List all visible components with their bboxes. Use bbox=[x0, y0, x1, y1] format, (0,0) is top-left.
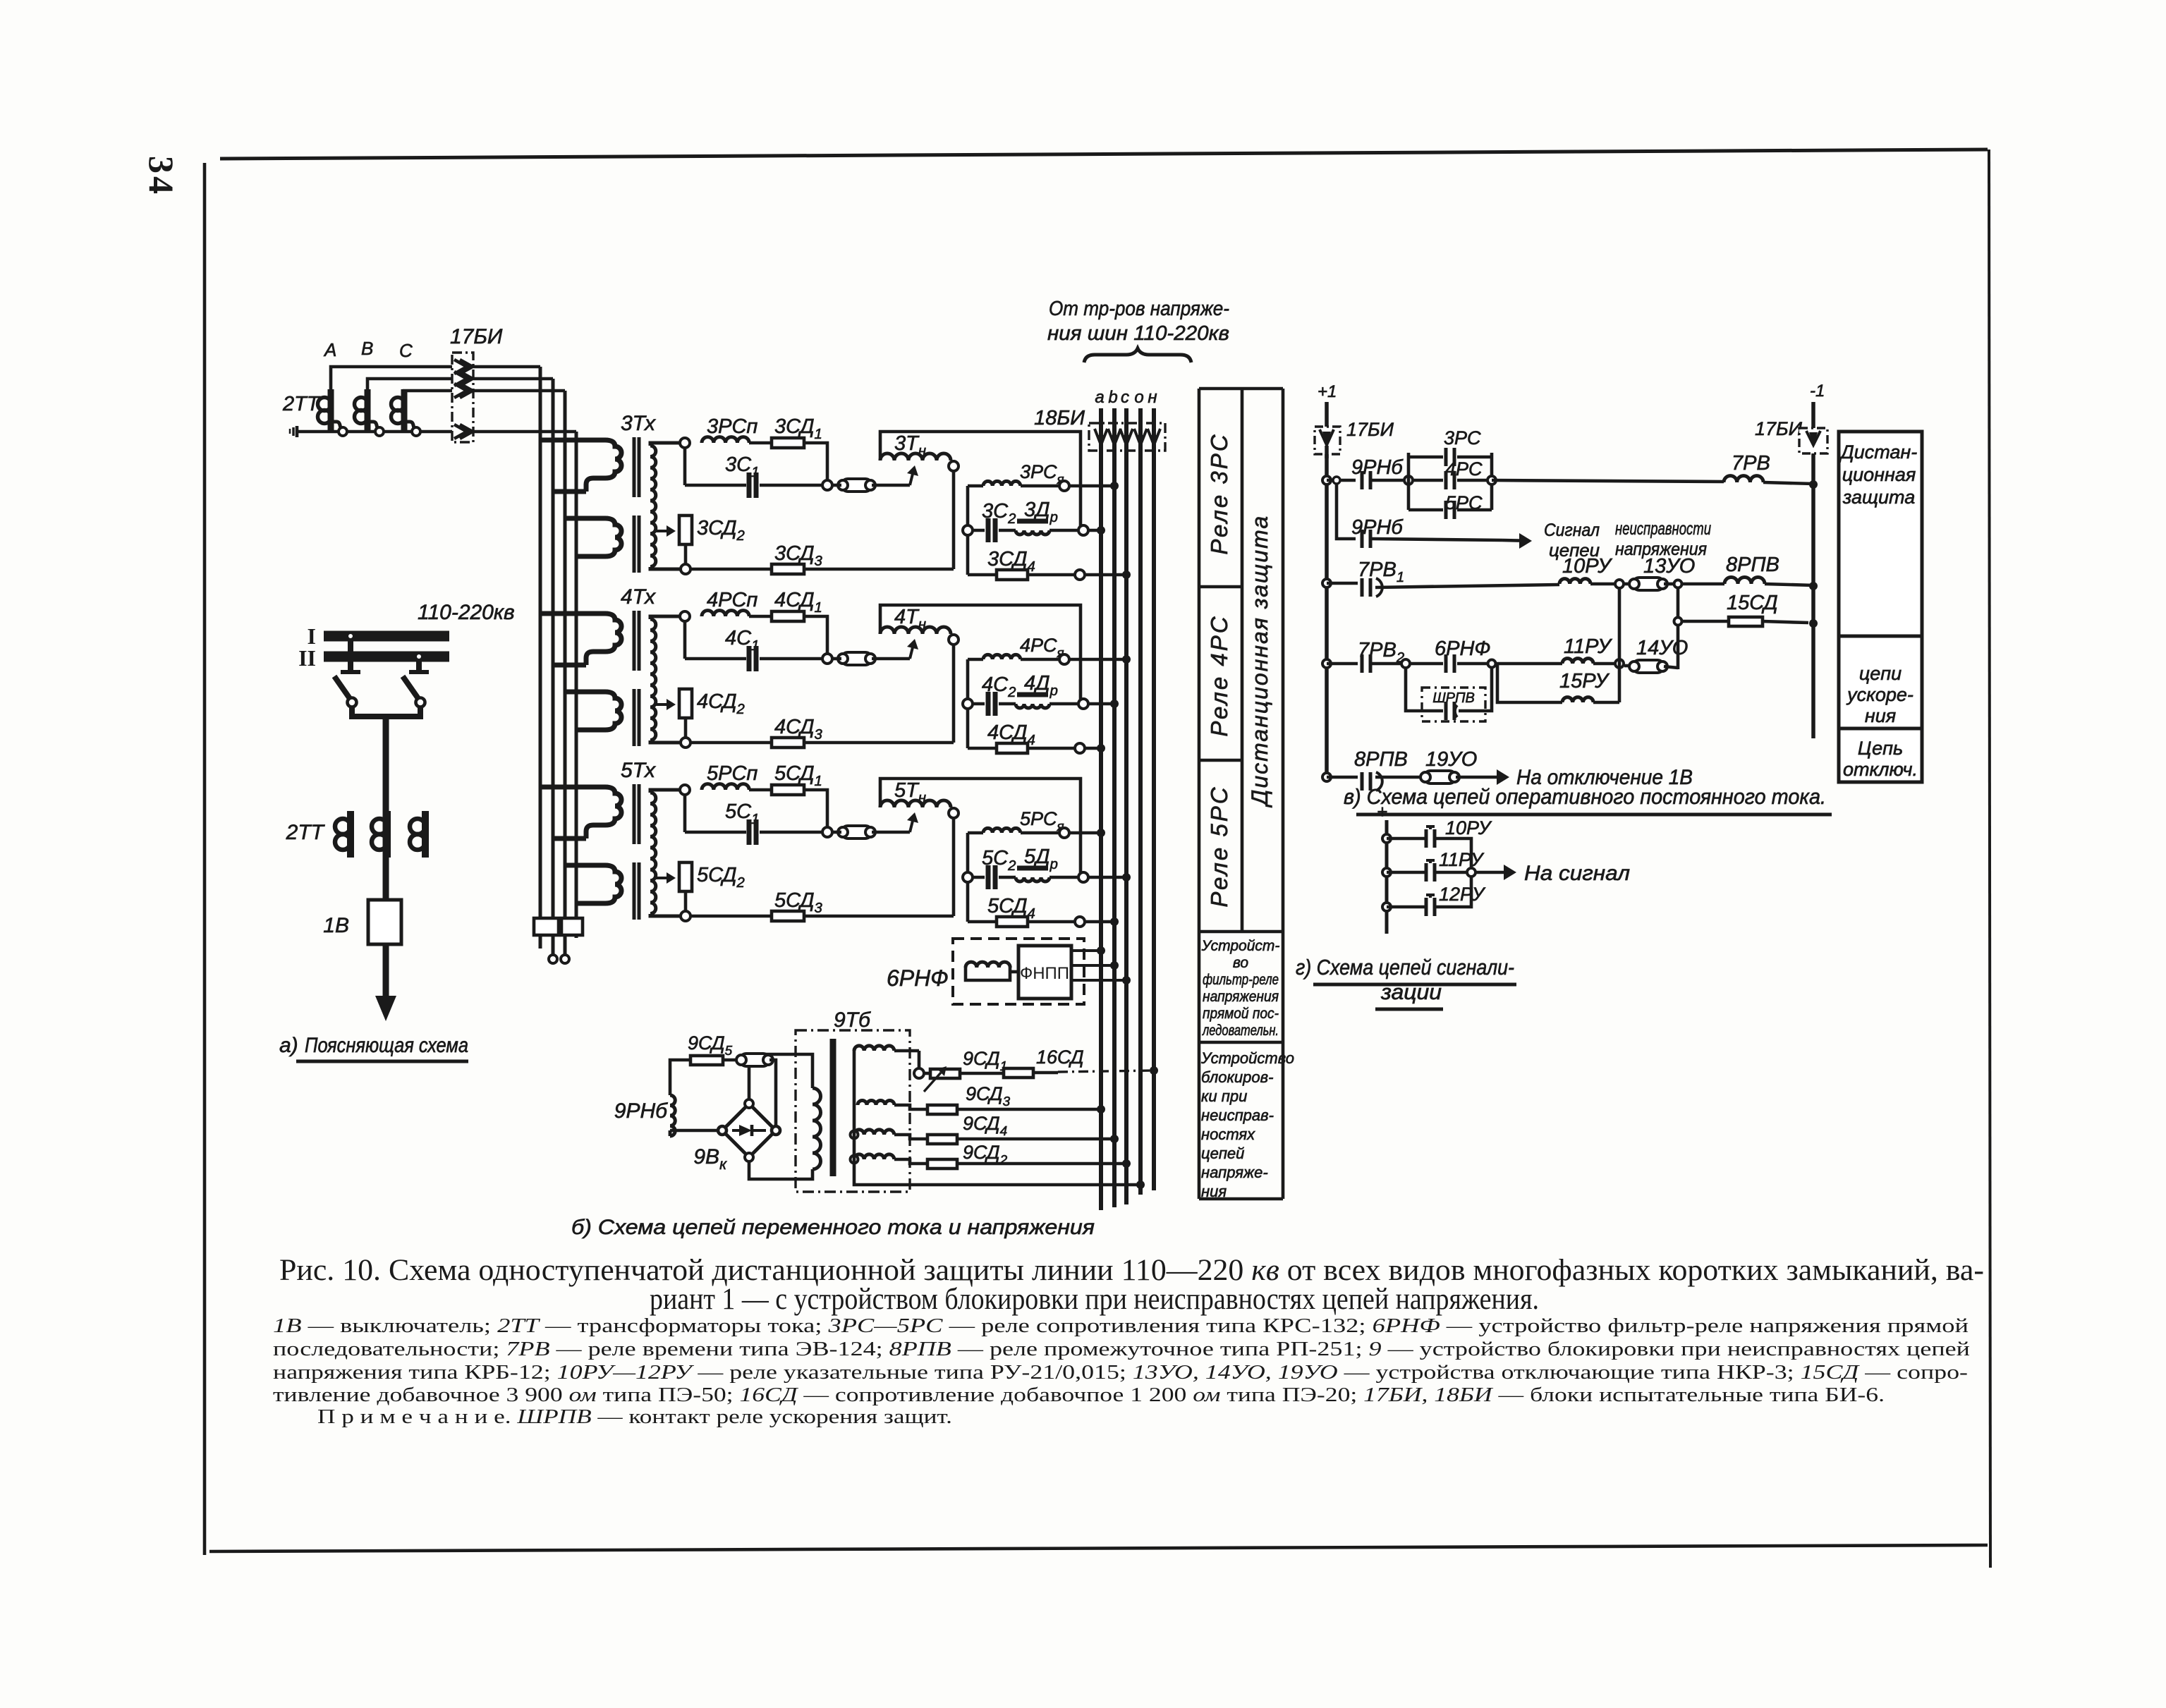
svg-text:С: С bbox=[399, 340, 413, 361]
dc positive vertical bbox=[1325, 402, 1329, 777]
9Тб core bbox=[830, 1039, 836, 1176]
svg-text:На сигнал: На сигнал bbox=[1524, 862, 1630, 885]
svg-text:4Тх: 4Тх bbox=[621, 585, 656, 609]
row 9РНб to RS contacts bbox=[1322, 476, 1331, 484]
svg-text:8РПВ: 8РПВ bbox=[1726, 554, 1779, 576]
svg-text:фильтр-реле: фильтр-реле bbox=[1203, 972, 1279, 988]
svg-text:16СД: 16СД bbox=[1036, 1047, 1084, 1068]
svg-text:н: н bbox=[1148, 388, 1157, 407]
wire disconnectors to feeder bbox=[347, 633, 354, 640]
wire 5 resonant block left side bbox=[966, 833, 970, 922]
svg-text:5РС: 5РС bbox=[1445, 492, 1483, 513]
svg-text:13УО: 13УО bbox=[1643, 555, 1695, 578]
svg-text:От тр-ров напряже-: От тр-ров напряже- bbox=[1049, 298, 1229, 320]
svg-text:напряжения типа КРБ-12; 10Р: напряжения типа КРБ-12; 10РУ—12РУ — реле… bbox=[273, 1361, 1968, 1384]
disconnector from bus I bbox=[348, 641, 353, 672]
svg-text:ностях: ностях bbox=[1201, 1126, 1255, 1143]
frame right rule bbox=[1989, 150, 1990, 1568]
tap arrow to resistor 3СД2 bbox=[655, 530, 667, 532]
voltage bus b bbox=[1112, 408, 1117, 1207]
wire bundle phase B vertical bbox=[552, 379, 555, 948]
wire bundle common vertical bbox=[575, 432, 578, 938]
svg-text:цепи: цепи bbox=[1859, 663, 1902, 684]
svg-text:18БИ: 18БИ bbox=[1034, 407, 1085, 429]
dc negative vertical bbox=[1811, 402, 1815, 738]
svg-text:Сигнал: Сигнал bbox=[1544, 520, 1600, 540]
svg-text:Поясняющая схема: Поясняющая схема bbox=[305, 1034, 468, 1057]
current transformer 2TT phase A bbox=[328, 389, 334, 430]
svg-text:3Тх: 3Тх bbox=[621, 412, 656, 435]
9Тб secondary winding bbox=[813, 1088, 821, 1169]
wire phase C bbox=[404, 391, 452, 392]
svg-text:в) Схема цепей оперативного: в) Схема цепей оперативного постоянного … bbox=[1344, 784, 1826, 809]
svg-text:ки при: ки при bbox=[1201, 1087, 1247, 1105]
svg-text:5РСп: 5РСп bbox=[707, 762, 758, 785]
svg-text:2ТТ: 2ТТ bbox=[286, 821, 326, 844]
wire 4 bottom row with СД3 bbox=[681, 738, 690, 748]
svg-text:17БИ: 17БИ bbox=[1755, 418, 1803, 439]
svg-text:ния шин 110-220кв: ния шин 110-220кв bbox=[1047, 322, 1229, 345]
6РНФ winding bbox=[966, 962, 1010, 968]
svg-text:9РНб: 9РНб bbox=[1351, 516, 1404, 539]
svg-text:неисправ-: неисправ- bbox=[1201, 1106, 1274, 1124]
wire phase A bbox=[331, 367, 452, 392]
svg-text:6РНФ: 6РНФ bbox=[1435, 638, 1490, 660]
svg-text:П р и м е ч а н и е. ШРПВ — к: П р и м е ч а н и е. ШРПВ — контакт реле… bbox=[317, 1405, 952, 1428]
svg-text:12РУ: 12РУ bbox=[1439, 884, 1486, 905]
svg-text:17БИ: 17БИ bbox=[450, 325, 503, 348]
svg-text:Рис. 10. Схема одноступенчатой: Рис. 10. Схема одноступенчатой дистанцио… bbox=[279, 1254, 1984, 1287]
disconnector from bus II bbox=[416, 661, 422, 672]
svg-text:a: a bbox=[1095, 388, 1104, 407]
contacts 3РС 4РС 5РС parallel bbox=[1404, 476, 1413, 484]
svg-text:c: c bbox=[1121, 388, 1129, 407]
svg-text:10РУ: 10РУ bbox=[1445, 817, 1492, 838]
svg-text:Цепь: Цепь bbox=[1858, 738, 1903, 759]
svg-text:В: В bbox=[361, 338, 373, 359]
wire 13УО junction down bbox=[1677, 587, 1680, 669]
svg-text:Дистан-: Дистан- bbox=[1839, 441, 1918, 463]
svg-text:4РС: 4РС bbox=[1445, 458, 1483, 480]
svg-text:-1: -1 bbox=[1810, 382, 1825, 401]
wire 4 c1 row to transformer Тн tap bbox=[841, 652, 872, 665]
svg-text:6РНФ: 6РНФ bbox=[887, 965, 949, 991]
block ФНПП bbox=[1018, 946, 1071, 999]
svg-text:19УО: 19УО bbox=[1425, 748, 1477, 771]
wire 4 resonant block left side bbox=[966, 659, 970, 748]
svg-text:во: во bbox=[1233, 955, 1249, 971]
signal bus vertical bbox=[1385, 820, 1389, 934]
svg-text:ФНПП: ФНПП bbox=[1020, 964, 1069, 983]
svg-text:11РУ: 11РУ bbox=[1564, 635, 1612, 658]
wire 3 resonant block left side bbox=[966, 486, 970, 575]
bundle bottom terminals bbox=[534, 918, 559, 935]
svg-text:b: b bbox=[1108, 388, 1117, 407]
svg-text:+1: +1 bbox=[1318, 382, 1337, 401]
svg-text:Устройство: Устройство bbox=[1200, 1049, 1294, 1067]
svg-text:А: А bbox=[323, 339, 336, 360]
wire 9 winding rows bbox=[894, 1049, 919, 1053]
wire ground row bbox=[311, 430, 452, 434]
svg-text:14УО: 14УО bbox=[1636, 637, 1688, 659]
svg-text:10РУ: 10РУ bbox=[1562, 555, 1612, 578]
wire 3 c1 row to transformer Тн tap bbox=[841, 479, 872, 492]
frame top rule bbox=[220, 150, 1988, 159]
svg-text:зации: зации bbox=[1380, 980, 1442, 1004]
relay table column lines bbox=[1198, 389, 1201, 1199]
svg-text:б) Схема цепей переменного: б) Схема цепей переменного тока и напряж… bbox=[571, 1216, 1095, 1239]
bus I bbox=[324, 631, 449, 642]
svg-text:17БИ: 17БИ bbox=[1346, 419, 1394, 440]
svg-text:4РСп: 4РСп bbox=[707, 589, 758, 611]
svg-text:11РУ: 11РУ bbox=[1439, 849, 1485, 870]
feeder arrow to line bbox=[383, 944, 389, 996]
svg-text:9РНб: 9РНб bbox=[614, 1099, 668, 1123]
contact ШРПВ dashed box bbox=[1422, 688, 1485, 721]
svg-text:7РВ: 7РВ bbox=[1732, 452, 1770, 475]
voltage bus o bbox=[1138, 408, 1143, 1195]
svg-text:прямой пос-: прямой пос- bbox=[1203, 1006, 1279, 1022]
feeder wire down bbox=[383, 716, 389, 900]
wire bundle phase C vertical bbox=[564, 391, 567, 948]
svg-text:15СД: 15СД bbox=[1727, 592, 1778, 614]
svg-text:8РПВ: 8РПВ bbox=[1354, 748, 1408, 771]
svg-text:Реле 4РС: Реле 4РС bbox=[1206, 614, 1232, 736]
wire 5 c1 row to transformer Тн tap bbox=[841, 826, 872, 838]
row 8РПВ bottom bbox=[1322, 773, 1331, 781]
svg-text:1В — выключатель; 2ТТ — транс: 1В — выключатель; 2ТТ — трансформаторы т… bbox=[273, 1314, 1969, 1337]
svg-text:3РС: 3РС bbox=[1444, 427, 1481, 449]
branch 9РНб signal bbox=[1333, 477, 1340, 484]
svg-text:а): а) bbox=[279, 1034, 298, 1057]
svg-text:блокиров-: блокиров- bbox=[1201, 1068, 1273, 1086]
svg-text:неисправности: неисправности bbox=[1615, 519, 1711, 539]
bridge corner nodes bbox=[718, 1126, 726, 1135]
svg-text:II: II bbox=[298, 645, 316, 671]
svg-text:Устройст-: Устройст- bbox=[1201, 938, 1280, 954]
svg-text:ускоре-: ускоре- bbox=[1846, 684, 1913, 705]
row 7РВ2 bbox=[1322, 659, 1331, 668]
voltage bus c bbox=[1124, 408, 1128, 1204]
current transformer 2TT phase C bbox=[401, 389, 408, 430]
voltage bus a bbox=[1099, 408, 1103, 1210]
svg-text:15РУ: 15РУ bbox=[1559, 670, 1610, 693]
wire 10РУ junction down to 15РУ bbox=[1618, 588, 1622, 702]
svg-text:цепей: цепей bbox=[1201, 1145, 1244, 1162]
svg-text:Дистанционная защита: Дистанционная защита bbox=[1247, 515, 1272, 807]
frame left rule bbox=[203, 163, 207, 1555]
svg-text:отключ.: отключ. bbox=[1843, 759, 1918, 780]
svg-text:риант 1 — с устройством блокир: риант 1 — с устройством блокировки при н… bbox=[650, 1283, 1539, 1316]
svg-text:9Тб: 9Тб bbox=[834, 1008, 871, 1032]
svg-text:Реле 5РС: Реле 5РС bbox=[1206, 785, 1232, 907]
wire bundle phase A vertical bbox=[539, 367, 542, 948]
svg-text:2ТТ: 2ТТ bbox=[282, 393, 321, 415]
wire 5 secondary top node bbox=[680, 785, 690, 795]
svg-text:3РСп: 3РСп bbox=[707, 415, 758, 438]
svg-text:ледовательн.: ледовательн. bbox=[1202, 1023, 1279, 1039]
svg-text:o: o bbox=[1134, 388, 1143, 407]
svg-text:ния: ния bbox=[1865, 705, 1896, 726]
svg-text:1В: 1В bbox=[323, 914, 349, 937]
box Дистанционная защита bbox=[1839, 432, 1922, 782]
wire 3 secondary top node bbox=[680, 438, 690, 448]
frame bottom rule bbox=[209, 1545, 1988, 1551]
svg-text:ционная: ционная bbox=[1842, 464, 1916, 485]
9Тб primary windings bbox=[854, 1046, 894, 1051]
svg-text:тивление добавочное 3 900 ом: тивление добавочное 3 900 ом типа ПЭ-50;… bbox=[273, 1384, 1885, 1406]
svg-text:+: + bbox=[1377, 801, 1387, 822]
wire 3 bottom row with СД3 bbox=[681, 564, 690, 574]
svg-text:г) Схема цепей сигнали-: г) Схема цепей сигнали- bbox=[1296, 955, 1514, 980]
signal output node bbox=[1467, 868, 1476, 877]
svg-text:9РНб: 9РНб bbox=[1351, 456, 1404, 479]
wires ФНПП to buses bbox=[1071, 949, 1101, 952]
voltage bus n bbox=[1152, 408, 1156, 1190]
tap arrow to resistor 4СД2 bbox=[655, 703, 667, 706]
wire 5 bottom row with СД3 bbox=[681, 911, 690, 921]
wire phase B bbox=[367, 379, 452, 392]
svg-text:последовательности; 7РВ — рел: последовательности; 7РВ — реле времени т… bbox=[273, 1338, 1970, 1360]
ground symbol bbox=[297, 430, 311, 434]
tap arrow to resistor 5СД2 bbox=[655, 877, 667, 879]
svg-text:5Тх: 5Тх bbox=[621, 759, 656, 782]
svg-text:защита: защита bbox=[1842, 487, 1915, 508]
wire 4 secondary top node bbox=[680, 611, 690, 621]
svg-text:110-220кв: 110-220кв bbox=[418, 601, 515, 624]
svg-text:напряжения: напряжения bbox=[1203, 989, 1279, 1005]
svg-text:34: 34 bbox=[142, 156, 181, 197]
svg-text:ния: ния bbox=[1201, 1183, 1227, 1200]
brace bbox=[1084, 348, 1191, 362]
svg-text:напряже-: напряже- bbox=[1201, 1164, 1268, 1181]
bus II bbox=[324, 652, 449, 662]
svg-text:Реле 3РС: Реле 3РС bbox=[1206, 432, 1232, 554]
row 7РВ1 bbox=[1322, 579, 1331, 587]
current transformer 2TT phase B bbox=[365, 389, 371, 430]
